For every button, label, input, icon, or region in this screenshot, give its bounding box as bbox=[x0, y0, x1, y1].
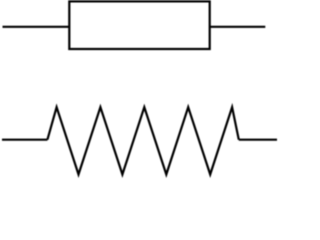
wire: left lead of box resistor R1 bbox=[3, 26, 70, 28]
resistor R1 (IEC box symbol) bbox=[69, 1, 209, 49]
wire: right lead of box resistor R1 bbox=[210, 26, 266, 28]
resistor R2 (ANSI zigzag symbol) bbox=[47, 107, 238, 174]
wire: right lead of zigzag resistor R2 bbox=[239, 139, 277, 141]
wire: left lead of zigzag resistor R2 bbox=[2, 139, 47, 141]
